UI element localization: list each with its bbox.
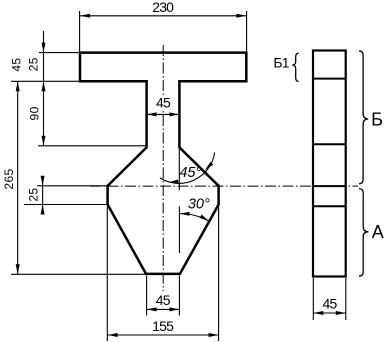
svg-text:30°: 30°	[188, 197, 210, 213]
main view outline	[80, 53, 246, 274]
svg-text:265: 265	[2, 168, 16, 189]
horizontal centerline	[90, 185, 358, 187]
strip division 3	[313, 185, 346, 187]
45 degree arc arrow on extension	[168, 180, 178, 185]
45 degree arc	[160, 152, 215, 183]
extension line bar top left	[39, 52, 79, 54]
svg-text:Б: Б	[371, 110, 383, 130]
svg-text:45: 45	[10, 58, 24, 72]
45 degree arc arrow on flare	[203, 162, 213, 172]
svg-text:45: 45	[323, 296, 338, 312]
extension line bar bottom left	[11, 80, 79, 82]
extension line bottom edge left	[11, 273, 146, 275]
dimension 45 bottom of main view	[147, 276, 180, 316]
brace right for B	[359, 51, 368, 184]
extension line taper start	[38, 145, 146, 147]
dimension 45 stem	[147, 95, 180, 117]
svg-text:45°: 45°	[179, 165, 201, 181]
svg-text:45: 45	[156, 95, 171, 111]
brace right for A	[359, 189, 368, 277]
strip division 2	[313, 143, 346, 145]
strip division 4	[313, 205, 346, 207]
svg-text:230: 230	[152, 0, 174, 15]
dimension line x=43.5 (25 top and 90)	[42, 31, 46, 146]
svg-text:155: 155	[152, 318, 174, 334]
dimension 25 lower	[24, 176, 107, 215]
45 degree angle: extension of stem edge	[178, 149, 180, 190]
dimension 230	[80, 0, 247, 52]
svg-text:25: 25	[27, 188, 41, 202]
strip division 1	[313, 78, 346, 80]
svg-text:90: 90	[28, 106, 42, 120]
dimension 265 line	[16, 81, 20, 274]
vertical centerline	[162, 45, 164, 291]
side strip outline	[313, 51, 346, 277]
svg-text:45: 45	[156, 292, 171, 308]
30 degree arc	[179, 213, 209, 221]
30 degree angle: extension from bottom corner	[178, 207, 180, 254]
brace left of strip top segment	[292, 53, 298, 81]
svg-text:Б1: Б1	[273, 55, 289, 71]
svg-text:А: А	[372, 222, 384, 242]
dimension 155	[107, 207, 218, 341]
dimension 45 strip	[313, 278, 346, 320]
svg-text:25: 25	[26, 57, 40, 71]
